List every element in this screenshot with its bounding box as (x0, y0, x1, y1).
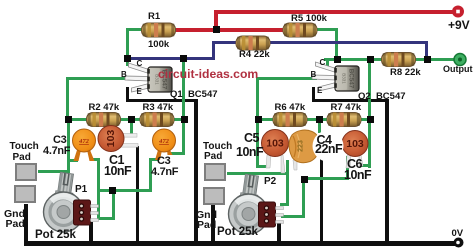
svg-text:472: 472 (78, 138, 90, 145)
svg-text:103: 103 (266, 138, 284, 150)
svg-text:472: 472 (158, 138, 170, 145)
svg-text:103: 103 (105, 130, 117, 148)
svg-text:103: 103 (346, 138, 364, 150)
svg-text:223: 223 (298, 140, 305, 152)
